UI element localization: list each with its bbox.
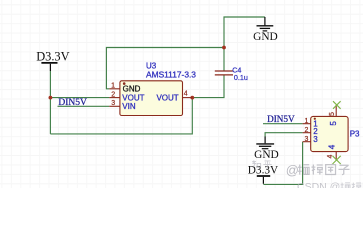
svg-text:3: 3 [304, 136, 308, 143]
svg-text:5: 5 [329, 121, 338, 126]
svg-text:VOUT: VOUT [156, 93, 178, 102]
svg-text:GND: GND [253, 31, 278, 43]
svg-text:D3.3V: D3.3V [36, 49, 69, 63]
svg-text:P3: P3 [350, 129, 360, 138]
svg-text:4: 4 [327, 155, 334, 159]
svg-text:GND: GND [254, 149, 279, 161]
svg-text:VOUT: VOUT [122, 93, 144, 102]
svg-text:3: 3 [111, 100, 115, 107]
svg-text:0.1u: 0.1u [234, 73, 248, 82]
svg-text:CSDN @: CSDN @ [297, 181, 340, 188]
svg-text:4: 4 [184, 91, 188, 98]
svg-text:VIN: VIN [122, 102, 136, 111]
svg-text:D3.3V: D3.3V [248, 165, 279, 177]
svg-text:4: 4 [328, 144, 337, 149]
svg-text:1: 1 [111, 83, 115, 90]
svg-text:@: @ [286, 163, 299, 178]
svg-text:1: 1 [304, 118, 308, 125]
svg-text:AMS1117-3.3: AMS1117-3.3 [146, 69, 196, 79]
svg-text:2: 2 [111, 91, 115, 98]
svg-text:2: 2 [304, 127, 308, 134]
svg-text:DIN5V: DIN5V [267, 114, 295, 124]
svg-text:5: 5 [329, 112, 336, 116]
svg-text:3: 3 [313, 135, 318, 144]
svg-text:DIN5V: DIN5V [58, 98, 87, 108]
svg-text:GND: GND [123, 85, 141, 94]
